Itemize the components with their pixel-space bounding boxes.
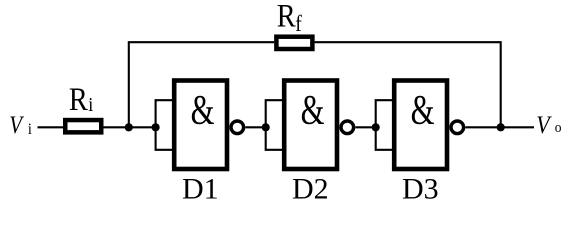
svg-text:o: o: [555, 119, 562, 136]
output label Vo: [536, 112, 561, 140]
NAND gate D2 ampersand: [301, 86, 325, 133]
svg-text:R: R: [277, 0, 296, 34]
junction at D1 input bracket: [152, 123, 160, 131]
svg-text:f: f: [295, 11, 302, 37]
junction at D2 input bracket: [262, 123, 270, 131]
junction node B (feedback tap at output): [497, 123, 505, 131]
NAND gate D3 ampersand: [411, 86, 435, 133]
wire Ri to D1 input bracket: [103, 126, 156, 128]
D1 input bracket wires: [156, 100, 173, 150]
NAND gate D2 output bubble: [341, 121, 354, 134]
svg-text:&: &: [411, 86, 435, 133]
resistor Rf: [276, 37, 312, 49]
svg-text:i: i: [88, 94, 93, 116]
input label Vi: [9, 110, 32, 138]
svg-text:D3: D3: [402, 172, 439, 205]
wire D3 output to Vo: [465, 126, 534, 128]
NAND gate D2 body: [284, 81, 337, 170]
wire input to Ri: [38, 126, 65, 128]
resistor Rf value label: [277, 0, 303, 36]
NAND gate D1 body: [174, 81, 227, 170]
D3 input bracket wires: [376, 100, 393, 150]
D2 input bracket wires: [266, 100, 283, 150]
svg-text:R: R: [69, 81, 88, 117]
wire feedback left vertical and top to Rf: [129, 42, 274, 127]
svg-text:D2: D2: [292, 172, 329, 205]
svg-text:D1: D1: [182, 172, 219, 205]
resistor Ri: [65, 120, 101, 132]
svg-text:V: V: [536, 112, 552, 140]
wire feedback top right and right vertical to output: [315, 42, 501, 127]
junction node A (feedback tap at input): [125, 123, 133, 131]
svg-text:i: i: [28, 120, 32, 138]
resistor Ri value label: [69, 81, 93, 117]
NAND gate D3 output bubble: [451, 121, 464, 134]
NAND gate D1 output bubble: [231, 121, 244, 134]
NAND gate D1 ampersand: [191, 86, 215, 133]
svg-text:V: V: [9, 110, 24, 138]
svg-text:&: &: [191, 86, 215, 133]
NAND gate D3 body: [394, 81, 447, 170]
wire D1 output to D2 input bracket: [245, 126, 265, 128]
junction at D3 input bracket: [372, 123, 380, 131]
wire D2 output to D3 input bracket: [355, 126, 375, 128]
svg-text:&: &: [301, 86, 325, 133]
